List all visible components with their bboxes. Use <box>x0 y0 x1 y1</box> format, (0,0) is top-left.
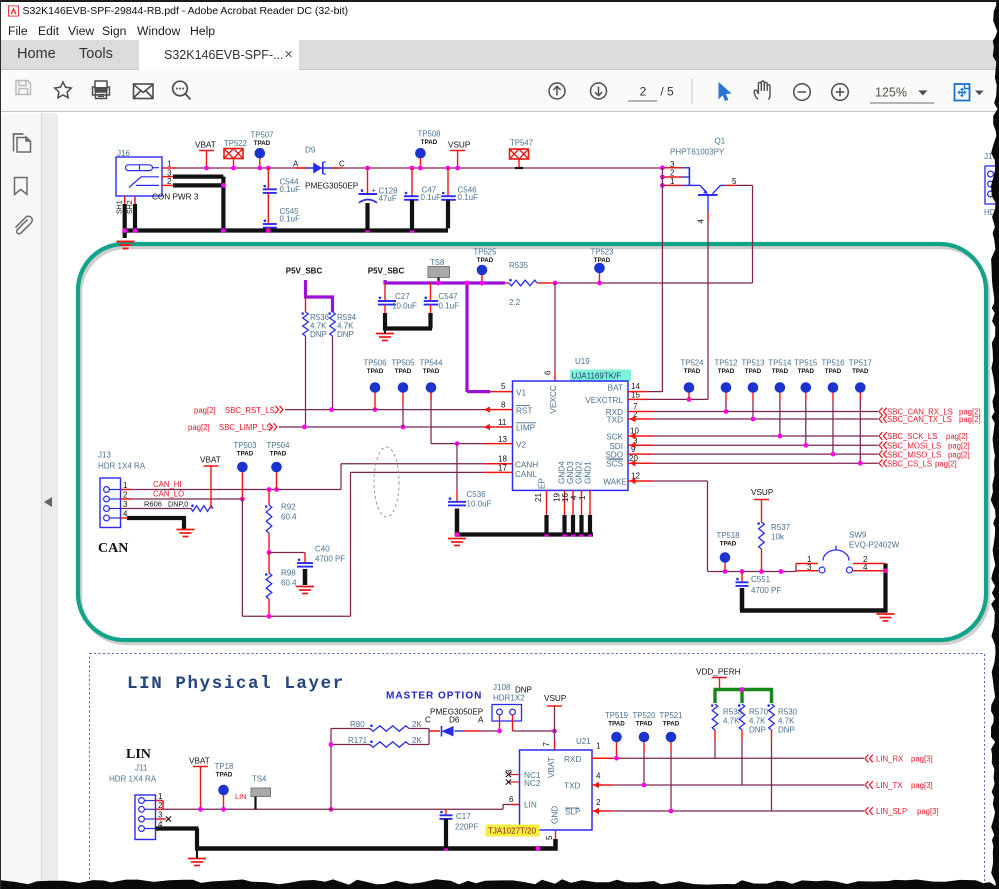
svg-text:SH1: SH1 <box>117 200 124 214</box>
svg-text:Q1: Q1 <box>715 137 726 146</box>
svg-text:VBAT: VBAT <box>189 757 210 766</box>
svg-text:4700 PF: 4700 PF <box>315 555 345 564</box>
svg-text:LIN_SLP: LIN_SLP <box>876 807 907 816</box>
svg-text:5: 5 <box>732 177 737 186</box>
svg-text:TP520: TP520 <box>633 711 657 720</box>
svg-text:R80: R80 <box>350 720 365 729</box>
svg-text:C: C <box>425 716 431 725</box>
svg-text:HDR 1X4 RA: HDR 1X4 RA <box>98 462 146 471</box>
svg-text:TPAD: TPAD <box>237 451 254 458</box>
svg-text:TPAD: TPAD <box>684 368 701 375</box>
svg-text:R537: R537 <box>771 523 791 532</box>
svg-text:2: 2 <box>596 798 601 807</box>
svg-text:TPAD: TPAD <box>852 368 869 375</box>
svg-text:CAN_LO: CAN_LO <box>153 490 184 499</box>
svg-text:TP521: TP521 <box>660 711 683 720</box>
svg-text:LIN: LIN <box>126 747 151 762</box>
svg-text:5: 5 <box>545 835 554 840</box>
svg-text:TPAD: TPAD <box>477 257 494 264</box>
svg-text:DNP,0: DNP,0 <box>168 500 188 509</box>
svg-text:TPAD: TPAD <box>798 368 815 375</box>
svg-text:TP18: TP18 <box>215 762 234 771</box>
svg-text:TXD: TXD <box>607 415 623 424</box>
svg-text:pag[2]: pag[2] <box>188 423 210 432</box>
svg-text:TP508: TP508 <box>418 130 441 139</box>
svg-text:TP517: TP517 <box>849 359 872 368</box>
svg-text:TP505: TP505 <box>392 359 416 368</box>
svg-text:HDR 1X4 RA: HDR 1X4 RA <box>109 775 157 784</box>
svg-text:5: 5 <box>501 382 506 391</box>
svg-text:SDO: SDO <box>605 450 623 459</box>
svg-text:CAN: CAN <box>98 541 128 556</box>
svg-text:12: 12 <box>631 472 640 481</box>
svg-text:1: 1 <box>596 742 601 751</box>
svg-text:TPAD: TPAD <box>745 368 762 375</box>
svg-text:R92: R92 <box>281 503 296 512</box>
svg-text:VSUP: VSUP <box>448 141 471 150</box>
svg-text:2: 2 <box>123 491 128 500</box>
svg-text:4: 4 <box>596 772 601 781</box>
svg-text:6: 6 <box>509 795 514 804</box>
svg-text:CANH: CANH <box>515 461 538 470</box>
svg-text:TXD: TXD <box>564 782 580 791</box>
svg-text:LIMP: LIMP <box>516 424 536 433</box>
svg-text:R171: R171 <box>348 736 368 745</box>
svg-text:TPAD: TPAD <box>825 368 842 375</box>
svg-text:3: 3 <box>158 811 163 820</box>
svg-text:47uF: 47uF <box>379 194 397 203</box>
svg-text:R606: R606 <box>144 500 162 509</box>
svg-text:TS4: TS4 <box>252 775 267 784</box>
svg-text:11: 11 <box>498 418 507 427</box>
svg-text:TP544: TP544 <box>420 359 444 368</box>
svg-text:18: 18 <box>498 455 507 464</box>
svg-text:pag[2]: pag[2] <box>948 442 970 451</box>
svg-text:0.1uF: 0.1uF <box>421 193 442 202</box>
svg-text:pag[2]: pag[2] <box>194 406 216 415</box>
svg-text:U19: U19 <box>575 357 590 366</box>
svg-text:R535: R535 <box>509 261 529 270</box>
svg-text:C27: C27 <box>395 292 410 301</box>
svg-text:3: 3 <box>807 563 812 572</box>
svg-text:VSUP: VSUP <box>544 694 567 703</box>
svg-text:R570: R570 <box>749 708 769 717</box>
svg-text:C40: C40 <box>315 545 330 554</box>
svg-text:TPAD: TPAD <box>421 139 438 146</box>
svg-text:SW9: SW9 <box>849 531 867 540</box>
svg-text:TPAD: TPAD <box>367 368 384 375</box>
svg-text:60.4: 60.4 <box>281 513 297 522</box>
svg-text:CON PWR 3: CON PWR 3 <box>152 193 199 202</box>
svg-text:TP504: TP504 <box>267 441 291 450</box>
svg-text:VEXCTRL: VEXCTRL <box>585 396 623 405</box>
svg-text:J16: J16 <box>117 149 130 158</box>
svg-text:EVQ-P2402W: EVQ-P2402W <box>849 541 900 550</box>
svg-text:pag[3]: pag[3] <box>917 807 939 816</box>
svg-text:4: 4 <box>863 563 868 572</box>
svg-text:VBAT: VBAT <box>200 456 221 465</box>
svg-text:R538: R538 <box>723 708 743 717</box>
svg-text:TP519: TP519 <box>605 711 628 720</box>
svg-text:SBC_LIMP_LS: SBC_LIMP_LS <box>219 423 271 432</box>
svg-text:21: 21 <box>534 493 543 502</box>
svg-text:TP547: TP547 <box>510 139 533 148</box>
svg-text:pag[3]: pag[3] <box>911 755 933 764</box>
svg-text:V1: V1 <box>516 389 526 398</box>
svg-text:4.7K: 4.7K <box>723 717 740 726</box>
svg-text:GND1: GND1 <box>583 461 592 484</box>
svg-text:TP503: TP503 <box>234 441 257 450</box>
svg-text:LIN: LIN <box>235 792 247 801</box>
svg-text:TP507: TP507 <box>251 131 274 140</box>
svg-text:0.1uF: 0.1uF <box>280 215 301 224</box>
svg-text:pag[2]: pag[2] <box>935 459 957 468</box>
svg-text:A: A <box>478 716 484 725</box>
svg-text:VDD_PERH: VDD_PERH <box>696 668 741 677</box>
svg-text:8: 8 <box>501 401 506 410</box>
svg-text:SBC_CS_LS: SBC_CS_LS <box>887 459 932 468</box>
svg-text:2.2: 2.2 <box>509 298 521 307</box>
svg-text:LIN_RX: LIN_RX <box>876 755 904 764</box>
svg-text:V2: V2 <box>516 441 526 450</box>
svg-text:0.1uF: 0.1uF <box>439 302 460 311</box>
svg-text:TP525: TP525 <box>474 248 498 257</box>
svg-text:+: + <box>372 185 377 194</box>
svg-text:DNP: DNP <box>310 330 327 339</box>
svg-text:LIN Physical Layer: LIN Physical Layer <box>127 674 345 694</box>
svg-text:0.1uF: 0.1uF <box>458 193 479 202</box>
svg-text:DNP: DNP <box>337 330 354 339</box>
svg-text:SBC_MISO_LS: SBC_MISO_LS <box>887 450 941 459</box>
svg-text:TPAD: TPAD <box>270 451 287 458</box>
svg-text:10k: 10k <box>771 533 785 542</box>
svg-text:J11: J11 <box>135 764 148 773</box>
svg-text:C17: C17 <box>456 812 471 821</box>
svg-text:P5V_SBC: P5V_SBC <box>286 267 323 276</box>
svg-text:GND: GND <box>551 806 560 824</box>
svg-text:DNP: DNP <box>749 726 766 735</box>
svg-text:C551: C551 <box>751 575 771 584</box>
svg-text:MASTER OPTION: MASTER OPTION <box>386 691 482 702</box>
svg-text:SBC_SCK_LS: SBC_SCK_LS <box>887 432 937 441</box>
svg-text:TP523: TP523 <box>591 248 614 257</box>
svg-text:TP518: TP518 <box>717 531 740 540</box>
svg-text:TPAD: TPAD <box>594 257 611 264</box>
svg-text:VBAT: VBAT <box>547 757 556 778</box>
svg-text:PHPT61003PY: PHPT61003PY <box>670 148 725 157</box>
svg-text:TPAD: TPAD <box>254 140 271 147</box>
svg-text:pag[2]: pag[2] <box>959 415 981 424</box>
svg-text:J13: J13 <box>98 451 111 460</box>
svg-text:J108: J108 <box>493 683 511 692</box>
svg-text:pag[2]: pag[2] <box>948 450 970 459</box>
svg-text:D6: D6 <box>449 716 460 725</box>
svg-text:TPAD: TPAD <box>423 368 440 375</box>
svg-text:pag[3]: pag[3] <box>911 781 933 790</box>
svg-text:TPAD: TPAD <box>608 721 625 728</box>
svg-text:LIN_TX: LIN_TX <box>876 781 903 790</box>
svg-text:2K: 2K <box>412 736 422 745</box>
svg-text:6: 6 <box>544 370 553 375</box>
svg-text:NC2: NC2 <box>524 779 541 788</box>
svg-text:TJA1027T/20: TJA1027T/20 <box>488 827 537 836</box>
svg-text:TP512: TP512 <box>715 359 738 368</box>
svg-text:SLP: SLP <box>565 808 581 817</box>
svg-text:1: 1 <box>167 160 172 169</box>
svg-text:TPAD: TPAD <box>772 368 789 375</box>
svg-text:HDR1X2: HDR1X2 <box>493 694 525 703</box>
svg-text:1: 1 <box>123 481 128 490</box>
svg-text:TP524: TP524 <box>681 359 705 368</box>
svg-text:TPAD: TPAD <box>720 541 737 548</box>
svg-text:4.7K: 4.7K <box>749 717 766 726</box>
svg-text:LIN: LIN <box>524 801 537 810</box>
svg-text:BAT: BAT <box>608 384 623 393</box>
svg-text:1: 1 <box>158 792 163 801</box>
svg-text:TPAD: TPAD <box>395 368 412 375</box>
svg-text:60.4: 60.4 <box>281 579 297 588</box>
svg-text:4700 PF: 4700 PF <box>751 586 781 595</box>
svg-text:CANL: CANL <box>515 470 537 479</box>
svg-text:TPAD: TPAD <box>216 772 233 779</box>
svg-text:TP522: TP522 <box>224 139 247 148</box>
svg-text:C536: C536 <box>467 490 487 499</box>
svg-text:SBC_RST_LS: SBC_RST_LS <box>225 406 275 415</box>
svg-text:1: 1 <box>578 495 587 500</box>
svg-text:SCK: SCK <box>606 433 623 442</box>
svg-text:TP514: TP514 <box>768 359 792 368</box>
svg-text:10.0uF: 10.0uF <box>392 302 417 311</box>
svg-text:220PF: 220PF <box>455 823 479 832</box>
svg-text:U21: U21 <box>576 737 591 746</box>
svg-text:4.7K: 4.7K <box>778 717 795 726</box>
svg-text:17: 17 <box>498 464 507 473</box>
svg-text:VEXCC: VEXCC <box>549 385 558 413</box>
svg-text:WAKE: WAKE <box>603 478 627 487</box>
svg-text:TPAD: TPAD <box>636 721 653 728</box>
svg-text:R98: R98 <box>281 569 296 578</box>
svg-text:A: A <box>293 160 299 169</box>
svg-text:C547: C547 <box>439 292 459 301</box>
svg-text:R530: R530 <box>778 708 798 717</box>
svg-text:TP515: TP515 <box>794 359 818 368</box>
svg-text:0.1uF: 0.1uF <box>280 185 301 194</box>
svg-text:TP513: TP513 <box>742 359 765 368</box>
svg-text:D9: D9 <box>305 146 316 155</box>
svg-text:TPAD: TPAD <box>663 721 680 728</box>
svg-text:pag[2]: pag[2] <box>946 432 968 441</box>
svg-text:C: C <box>339 160 345 169</box>
svg-text:13: 13 <box>498 435 507 444</box>
svg-text:TS8: TS8 <box>430 258 444 267</box>
svg-text:2K: 2K <box>412 720 422 729</box>
svg-text:3: 3 <box>123 500 128 509</box>
svg-text:SCS: SCS <box>606 459 623 468</box>
svg-text:EP: EP <box>538 478 547 489</box>
svg-text:RST: RST <box>516 407 532 416</box>
svg-text:SBC_CAN_TX_LS: SBC_CAN_TX_LS <box>887 415 952 424</box>
svg-text:UJA1169TK/F: UJA1169TK/F <box>572 372 622 381</box>
svg-text:4: 4 <box>697 219 706 224</box>
svg-text:VSUP: VSUP <box>751 488 774 497</box>
svg-text:TPAD: TPAD <box>718 368 735 375</box>
svg-text:SBC_MOSI_LS: SBC_MOSI_LS <box>887 442 941 451</box>
svg-text:PMEG3050EP: PMEG3050EP <box>305 182 359 191</box>
svg-text:10.0uF: 10.0uF <box>467 500 492 509</box>
svg-text:DNP: DNP <box>778 726 795 735</box>
svg-text:TP506: TP506 <box>364 359 387 368</box>
svg-text:RXD: RXD <box>564 755 581 764</box>
svg-text:VBAT: VBAT <box>195 141 216 150</box>
svg-text:P5V_SBC: P5V_SBC <box>368 267 405 276</box>
svg-text:TP516: TP516 <box>822 359 845 368</box>
svg-text:7: 7 <box>542 742 551 747</box>
svg-text:CAN_HI: CAN_HI <box>153 480 182 489</box>
svg-text:SH2: SH2 <box>127 200 134 214</box>
